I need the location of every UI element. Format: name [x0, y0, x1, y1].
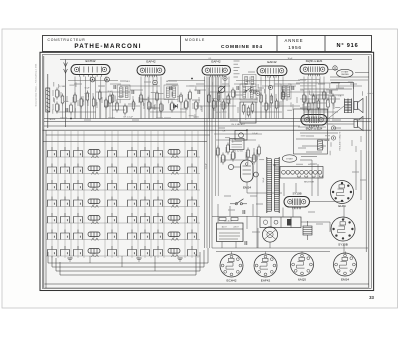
misc value labels: [49, 58, 342, 135]
node dot B: [70, 118, 72, 120]
contact S5a: [48, 213, 57, 223]
tube V8 SY10B (rectifier): [284, 197, 310, 210]
svg-text:12 kΩ: 12 kΩ: [201, 105, 203, 111]
coupling capacitors row: [114, 85, 332, 94]
power transformer T.A.: [267, 157, 279, 213]
coil L6A: [88, 232, 100, 237]
svg-text:PATHE-MARCONI: PATHE-MARCONI: [74, 43, 141, 50]
svg-text:COMBINE 804: COMBINE 804: [221, 44, 263, 50]
tube V1 ECH42: [71, 59, 110, 76]
alignment frequency table: [234, 61, 240, 77]
wire row 1 link: [46, 156, 200, 158]
connector strip T.A. / voltage selector: [272, 164, 323, 183]
contact S3a: [48, 180, 57, 190]
tube socket EM34 socket: [334, 253, 357, 282]
contact S4a: [48, 197, 57, 207]
resistor R5: [111, 93, 115, 105]
contact S3d: [108, 180, 117, 190]
contact S5e: [128, 213, 137, 223]
grid cap G6: [223, 76, 227, 80]
grid cap G1: [90, 77, 95, 82]
contact S7g: [154, 246, 163, 256]
resistor R8: [116, 101, 119, 113]
contact S4c: [74, 197, 83, 207]
note TRES IMPORTANT: [301, 156, 317, 158]
coil L5A: [88, 216, 100, 221]
contact S6b: [61, 230, 70, 240]
wire right rail: [368, 56, 370, 288]
contact S3b: [61, 180, 70, 190]
pushbutton switch bank: [46, 131, 200, 258]
coil L1A: [88, 150, 100, 155]
diode D1: [174, 104, 178, 108]
capacitor C31: [245, 241, 247, 245]
resistor R30: [219, 218, 226, 221]
wire left rail: [43, 56, 45, 288]
wire bus 5: [46, 134, 210, 136]
resistor R40 (bleeder): [303, 221, 312, 240]
contact S1f: [141, 147, 150, 157]
capacitor C1: [56, 88, 60, 100]
svg-text:ANNEE: ANNEE: [285, 38, 304, 43]
wire matrix bottom bus nest: [45, 248, 370, 288]
contact S2a: [48, 164, 57, 174]
svg-text:N° 916: N° 916: [337, 43, 359, 49]
ground G5: [177, 258, 182, 261]
electrolytic filter block: [260, 217, 301, 228]
pilot lamp VOYANT CADRAN: [337, 69, 353, 77]
alignment table text: [300, 80, 320, 90]
wire matrix top: [43, 141, 207, 143]
contact S5c: [74, 213, 83, 223]
contact S2d: [108, 164, 117, 174]
contact S5h: [188, 213, 197, 223]
wire bus 3: [44, 125, 300, 127]
resistor R1: [56, 102, 60, 114]
svg-text:CONSTRUCTEUR: CONSTRUCTEUR: [48, 38, 86, 42]
output assembly box corner: [331, 81, 354, 83]
coil L7A: [88, 249, 100, 254]
loudspeaker HP2: [354, 116, 363, 130]
contact S6e: [128, 230, 137, 240]
contact S4h: [188, 197, 197, 207]
tube socket ECH42 socket: [220, 254, 243, 283]
coil L4A: [88, 199, 100, 204]
grid cap G7: [331, 126, 335, 130]
wire top AVC bus: [60, 59, 352, 61]
contact S1e: [128, 147, 137, 157]
phono motor: [262, 227, 277, 242]
wire segs extra: [110, 84, 338, 110]
coil L3A: [88, 183, 100, 188]
contact S7b: [61, 246, 70, 256]
contact S7e: [128, 246, 137, 256]
switch PU/radio: [245, 87, 252, 92]
node dot A: [191, 78, 193, 80]
wire row 6 link: [46, 239, 200, 241]
svg-text:MODELE: MODELE: [185, 38, 205, 42]
contact S5d: [108, 213, 117, 223]
wire row 2 link: [46, 173, 200, 175]
tube V4 EAF42: [257, 60, 287, 78]
contact S6d: [108, 230, 117, 240]
wires tube pin drops: [75, 77, 324, 119]
resistor R6: [132, 100, 135, 112]
coil L5B: [168, 216, 180, 221]
contact S6g: [154, 230, 163, 240]
resistor R22 (hatched): [318, 140, 323, 150]
output transformer T.S.: [345, 99, 352, 114]
svg-text:50 µF: 50 µF: [263, 177, 265, 183]
contact S1b: [61, 147, 70, 157]
contact S6h: [188, 230, 197, 240]
contact S1a: [48, 147, 57, 157]
contact S4d: [108, 197, 117, 207]
wire left rail 2: [45, 130, 47, 288]
contact S2f: [141, 164, 150, 174]
wire right mesh: [212, 70, 369, 255]
contact S5f: [141, 213, 150, 223]
ground G3: [67, 258, 72, 261]
contact S2h: [188, 164, 197, 174]
svg-text:Documentation Radio — Schémath: Documentation Radio — Schémathèque 1956: [35, 63, 38, 106]
pilot lamp oval 2: [282, 155, 296, 162]
wire mesh upper: [56, 77, 368, 249]
switch mains interrupteur: [230, 199, 247, 205]
title block: [43, 36, 372, 52]
ground G4: [136, 258, 141, 261]
coil L6B: [168, 232, 180, 237]
wire bus 1: [44, 118, 371, 120]
tube socket 6AQ5 socket: [291, 253, 314, 282]
tone network box: [240, 102, 256, 124]
value annotations (scatter): [53, 79, 373, 163]
contact S1d: [108, 147, 117, 157]
tube socket EAF42 socket: [254, 254, 277, 283]
resistors bank (RF stages): [70, 88, 336, 165]
tube V6 6AQ5F ou EL84 (second): [301, 115, 327, 128]
contact S1g: [154, 147, 163, 157]
wire row 5 link: [46, 222, 200, 224]
value labels (horizontal): [60, 72, 366, 232]
IF transformer MF1: [118, 85, 131, 100]
contact S4g: [154, 197, 163, 207]
tube socket SY10B socket: [331, 217, 355, 247]
grid cap G5: [153, 80, 158, 85]
contact S1h: [188, 147, 197, 157]
grid cap G4: [268, 85, 272, 89]
wire matrix verticals: [51, 131, 53, 258]
IF transformer MF2: [164, 85, 178, 100]
wire row 7 link: [46, 255, 200, 257]
coil L4B: [168, 199, 180, 204]
contact S4f: [141, 197, 150, 207]
svg-text:33: 33: [369, 295, 374, 300]
wire bus 2: [44, 121, 371, 123]
wire right rail 2: [365, 96, 367, 252]
contact S3c: [74, 180, 83, 190]
resistor R31: [231, 218, 238, 221]
node dot C: [246, 129, 248, 131]
svg-text:1956: 1956: [288, 45, 301, 51]
contact S1c: [74, 147, 83, 157]
coil L2A: [88, 166, 100, 171]
terminal board plaquette: [217, 223, 244, 242]
grid cap G3: [256, 91, 260, 95]
capacitor C3: [66, 108, 68, 112]
contact S7a: [48, 246, 57, 256]
contact S5g: [154, 213, 163, 223]
grid cap G2: [105, 77, 110, 82]
contact S2e: [128, 164, 137, 174]
grid cap G9: [333, 66, 337, 70]
contact S6c: [74, 230, 83, 240]
capacitor C30: [243, 210, 245, 214]
tube socket EL84 socket: [331, 181, 354, 209]
contact S3h: [188, 180, 197, 190]
wire row 3 link: [46, 189, 200, 191]
IF transformer MF3: [240, 84, 256, 100]
resistor R9: [124, 104, 128, 116]
antenna: [64, 60, 68, 128]
contact S3e: [128, 180, 137, 190]
tube V7 EM34 (indicator): [228, 160, 258, 189]
tube V3 EAF42: [202, 60, 231, 78]
loudspeaker HP1: [354, 98, 363, 112]
tube V2 EAF42: [137, 60, 165, 78]
tube V5 6AQ5F ou EL84: [300, 60, 328, 76]
contact S7h: [188, 246, 197, 256]
contact S2c: [74, 164, 83, 174]
wire HT rail: [256, 150, 258, 248]
resistor R7: [171, 101, 175, 113]
contact S4b: [61, 197, 70, 207]
coil L2B: [168, 166, 180, 171]
frame aerial CADRE: [46, 74, 50, 128]
pickup PU connector: [230, 139, 245, 150]
contact S7f: [141, 246, 150, 256]
contact S6a: [48, 230, 57, 240]
output stage enclosure: [294, 109, 328, 154]
contact S2g: [154, 164, 163, 174]
contact S4e: [128, 197, 137, 207]
wire stub: [62, 106, 64, 119]
value labels (vertical): [53, 90, 361, 163]
potentiometer P1 volume: [218, 86, 225, 93]
jack CD box: [235, 131, 247, 141]
contact S2b: [61, 164, 70, 174]
contact S3g: [154, 180, 163, 190]
contact S5b: [61, 213, 70, 223]
oscillator padder box LCT: [243, 75, 257, 87]
grid cap G8: [331, 136, 335, 140]
coil L3B: [168, 183, 180, 188]
capacitor C2: [61, 94, 64, 106]
contact S7c: [74, 246, 83, 256]
contact S6f: [141, 230, 150, 240]
contact S7d: [108, 246, 117, 256]
contact S3f: [141, 180, 150, 190]
svg-text:0,1 µF: 0,1 µF: [206, 162, 208, 168]
oscillator coil L2: [281, 84, 291, 99]
wire row 4 link: [46, 206, 200, 208]
coil L7B: [168, 249, 180, 254]
wire bus 4 (chassis): [43, 129, 371, 131]
coil L1B: [168, 150, 180, 155]
